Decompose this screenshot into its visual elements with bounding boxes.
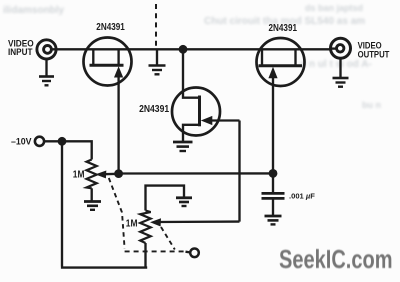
ground (R1) — [84, 202, 101, 210]
ground (R2 top) — [176, 198, 192, 206]
transistor Q3 2N4391 (middle) — [172, 49, 240, 141]
wire: -10V to pot R1 top — [45, 141, 92, 159]
dashed shield line top center — [155, 4, 157, 48]
terminal control (open circle) — [190, 249, 199, 258]
node: junction dot top wire — [179, 45, 188, 54]
resistor R1 1M (potentiometer) — [87, 160, 97, 189]
SeekIC.com watermark — [279, 244, 393, 275]
svg-text:.001 µF: .001 µF — [289, 191, 315, 200]
wire: stub to control terminal — [186, 251, 190, 254]
wire: R2 wiper line — [158, 220, 240, 223]
svg-text:INPUT: INPUT — [8, 46, 33, 57]
wire: node A horizontal to cap node — [119, 172, 273, 174]
ground (top center) — [149, 66, 166, 75]
svg-text:1M: 1M — [126, 218, 138, 229]
wiper arrow R1 — [95, 171, 118, 179]
terminal -10V (open circle) — [35, 137, 44, 146]
faint bleed-through text line3 — [300, 59, 372, 70]
svg-text:2N4391: 2N4391 — [139, 104, 169, 115]
node: junction dot capacitor node — [269, 169, 278, 178]
dashed gang link from R1 wiper — [109, 178, 125, 249]
node: junction dot (gate node A) — [114, 169, 123, 178]
transistor Q1 2N4391 (left) — [84, 38, 132, 174]
ground (input) — [39, 77, 54, 86]
ground (C1) — [265, 216, 282, 224]
faint bleed-through text top-right line1 — [305, 3, 363, 13]
faint bleed-through text line4 — [362, 100, 381, 110]
wire: stem to ground under top wire — [156, 50, 158, 65]
faint bleed-through text line2 — [204, 16, 365, 27]
wiper arrow R2 — [150, 218, 161, 226]
wire: bottom rail — [61, 266, 147, 268]
svg-text:OUTPUT: OUTPUT — [358, 48, 390, 59]
wire: output connector to ground — [339, 58, 341, 77]
wire: R2 top loop to ground — [146, 186, 185, 211]
ground (output) — [333, 78, 349, 87]
faint bleed-through text top-left — [3, 5, 64, 16]
svg-text:2N4391: 2N4391 — [96, 22, 125, 33]
svg-text:1M: 1M — [73, 169, 85, 180]
connector J2 VIDEO OUTPUT — [330, 38, 351, 58]
transistor Q2 2N4391 (right) — [257, 38, 305, 173]
wire: left vertical down to bottom rail — [61, 141, 63, 266]
svg-text:–10V: –10V — [11, 136, 32, 146]
wire: input connector to ground — [45, 59, 47, 76]
wire: Q3 gate vertical down to R2 wiper — [238, 121, 240, 222]
dashed gang link horizontal — [125, 250, 187, 252]
node: junction dot -10V rail — [58, 137, 67, 146]
capacitor C1 .001 uF — [262, 173, 285, 215]
wire: R1 to ground — [91, 188, 93, 201]
dashed gang link from R2 wiper — [161, 227, 175, 250]
svg-text:2N4391: 2N4391 — [269, 23, 298, 34]
wire: main signal line input to output — [51, 48, 338, 50]
resistor R2 1M (potentiometer) — [140, 211, 151, 244]
wire: up to pot R2 bottom — [144, 243, 146, 268]
ground (Q3 source) — [173, 142, 193, 151]
connector J1 VIDEO INPUT — [37, 40, 56, 59]
